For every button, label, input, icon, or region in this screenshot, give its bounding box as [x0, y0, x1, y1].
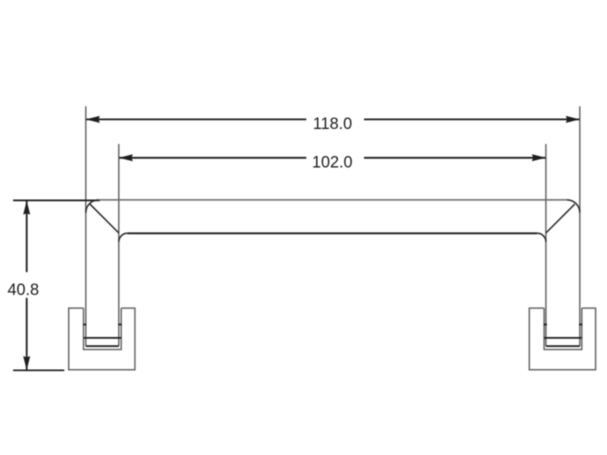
- right mount channel left wall: [543, 308, 545, 349]
- arrowhead 102.0 left: [119, 154, 133, 161]
- dimension line 40.8 lower segment: [26, 298, 28, 370]
- handle outer corner arc left: [86, 200, 99, 213]
- arrowhead 118.0 right: [566, 116, 580, 123]
- handle top edge: [99, 199, 567, 201]
- extension line right (102.0) merged with leg inner edge right: [545, 144, 547, 346]
- extension line left (118.0) merged with leg outer edge left: [85, 106, 87, 346]
- dimension line 118.0 left segment: [86, 118, 306, 120]
- arrowhead 102.0 right: [532, 154, 546, 161]
- svg-text:40.8: 40.8: [7, 281, 39, 299]
- right mount channel right wall: [581, 308, 583, 349]
- corner miter diagonal right: [546, 204, 575, 233]
- right foot tick right: [579, 324, 582, 326]
- left mount block outline: [69, 308, 135, 370]
- right leg end line: [546, 345, 580, 347]
- extension line top (40.8): [13, 199, 100, 201]
- extension line left (102.0) merged with leg inner edge left: [118, 144, 120, 346]
- left foot seat line: [84, 337, 122, 339]
- left leg end line: [86, 345, 119, 347]
- svg-text:118.0: 118.0: [313, 115, 352, 133]
- left mount channel left wall: [83, 308, 85, 349]
- left foot tick right: [118, 324, 121, 326]
- right foot tick left: [544, 324, 547, 326]
- arrowhead 40.8 top: [23, 201, 30, 215]
- left mount channel bottom: [83, 349, 122, 351]
- extension line bottom (40.8): [13, 369, 64, 371]
- right mount channel bottom: [543, 349, 582, 351]
- right foot seat line: [544, 337, 582, 339]
- dimension line 102.0 left segment: [119, 157, 306, 159]
- corner miter diagonal left: [90, 204, 119, 233]
- extension line right (118.0) merged with leg outer edge right: [579, 106, 581, 346]
- left mount channel right wall: [120, 308, 122, 349]
- arrowhead 118.0 left: [86, 116, 100, 123]
- handle crossbar bottom edge: [127, 232, 537, 234]
- dimension line 40.8 upper segment: [26, 201, 28, 272]
- right mount block outline: [529, 308, 595, 370]
- arrowhead 40.8 bottom: [23, 356, 30, 370]
- dimension line 102.0 right segment: [364, 157, 546, 159]
- handle inner fillet left: [119, 233, 128, 242]
- handle inner fillet right: [537, 233, 546, 242]
- left foot tick left: [83, 324, 86, 326]
- handle outer corner arc right: [567, 200, 580, 213]
- svg-text:102.0: 102.0: [312, 154, 353, 172]
- dimension line 118.0 right segment: [364, 118, 579, 120]
